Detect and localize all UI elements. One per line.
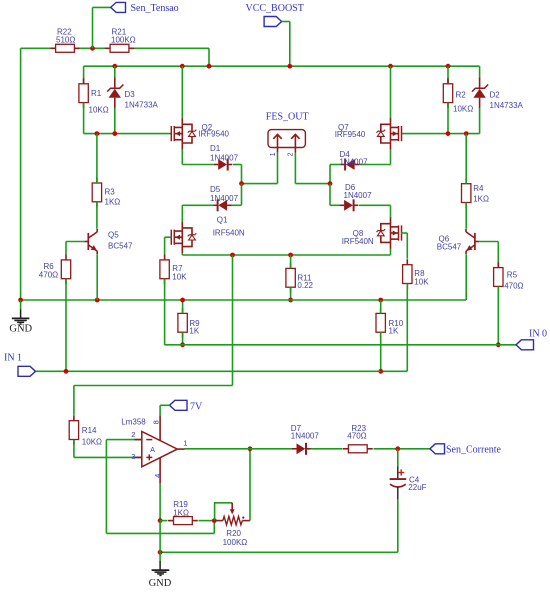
resistor R9 bbox=[178, 308, 200, 338]
svg-text:R5: R5 bbox=[507, 271, 518, 280]
wire bbox=[83, 66, 85, 84]
svg-text:1K: 1K bbox=[189, 327, 199, 336]
wire bbox=[182, 332, 184, 345]
svg-text:R4: R4 bbox=[473, 184, 484, 193]
node junction bbox=[446, 64, 451, 69]
transistor Q7 bbox=[335, 118, 402, 150]
svg-text:R14: R14 bbox=[82, 426, 97, 435]
svg-text:D2: D2 bbox=[490, 90, 501, 99]
wire bbox=[96, 202, 98, 229]
svg-text:470Ω: 470Ω bbox=[504, 281, 523, 290]
wire bbox=[465, 254, 467, 300]
wire bbox=[181, 205, 183, 222]
svg-text:2: 2 bbox=[131, 430, 135, 439]
svg-text:10KΩ: 10KΩ bbox=[89, 105, 109, 114]
wire bbox=[232, 184, 242, 206]
svg-text:1KΩ: 1KΩ bbox=[473, 195, 489, 204]
ground GND2 bbox=[149, 552, 172, 589]
svg-text:3: 3 bbox=[131, 452, 135, 461]
svg-text:10KΩ: 10KΩ bbox=[453, 104, 473, 113]
svg-text:IN 0: IN 0 bbox=[529, 328, 547, 339]
node junction bbox=[446, 131, 451, 136]
wire bbox=[282, 22, 290, 67]
svg-text:IRF540N: IRF540N bbox=[342, 237, 374, 246]
wire bbox=[66, 242, 84, 255]
ground GND1 bbox=[9, 300, 32, 335]
wire gate Q8 bbox=[401, 233, 407, 259]
svg-text:1N4007: 1N4007 bbox=[344, 191, 373, 200]
svg-text:FES_OUT: FES_OUT bbox=[266, 112, 309, 123]
wire bbox=[182, 204, 213, 206]
node junction bbox=[95, 131, 100, 136]
wire bbox=[330, 184, 340, 206]
svg-text:R20: R20 bbox=[226, 529, 241, 538]
svg-text:7V: 7V bbox=[190, 401, 203, 412]
wire bbox=[182, 164, 213, 166]
node junction bbox=[230, 253, 235, 258]
svg-text:R3: R3 bbox=[105, 188, 116, 197]
wire bbox=[84, 133, 172, 135]
wire bbox=[160, 405, 169, 415]
wire bbox=[249, 449, 251, 521]
wire bbox=[83, 103, 85, 134]
diode D1 bbox=[210, 144, 239, 170]
svg-text:GND: GND bbox=[9, 324, 32, 335]
svg-text:470Ω: 470Ω bbox=[39, 271, 58, 280]
wire bbox=[465, 203, 467, 229]
node junction bbox=[180, 298, 185, 303]
resistor R10 bbox=[376, 308, 404, 338]
svg-text:IRF9540: IRF9540 bbox=[198, 130, 229, 139]
svg-text:1N4007: 1N4007 bbox=[291, 431, 320, 440]
wire bbox=[181, 253, 183, 255]
node junction bbox=[95, 298, 100, 303]
resistor R5 bbox=[494, 262, 524, 292]
svg-text:Sen_Corrente: Sen_Corrente bbox=[446, 445, 502, 456]
wire bbox=[465, 134, 467, 184]
wire bbox=[359, 164, 391, 166]
node junction bbox=[248, 446, 253, 451]
net flag Sen_Corrente bbox=[430, 444, 502, 456]
node junction bbox=[180, 342, 185, 347]
wire bbox=[159, 484, 161, 521]
wire bbox=[397, 449, 399, 467]
node junction bbox=[288, 253, 293, 258]
wire bbox=[390, 149, 392, 164]
diode D5 bbox=[210, 185, 239, 212]
node junction bbox=[180, 64, 185, 69]
node junction bbox=[64, 369, 69, 374]
resistor R14 bbox=[69, 415, 102, 447]
wire pin2 feedback bbox=[106, 440, 214, 534]
wire bbox=[165, 279, 178, 345]
wire bbox=[295, 153, 330, 184]
wire bbox=[380, 300, 382, 314]
svg-text:Q5: Q5 bbox=[108, 231, 119, 240]
capacitor C4 bbox=[390, 467, 427, 500]
svg-text:470Ω: 470Ω bbox=[347, 431, 366, 440]
transistor Q5 bbox=[84, 229, 133, 254]
node junction bbox=[378, 369, 383, 374]
svg-text:R1: R1 bbox=[91, 89, 102, 98]
svg-text:R6: R6 bbox=[44, 262, 55, 271]
connector FES_OUT bbox=[266, 112, 309, 153]
wire bbox=[96, 134, 98, 183]
wire bbox=[290, 255, 292, 268]
wire bbox=[330, 165, 341, 184]
resistor R3 bbox=[92, 178, 120, 208]
resistor R11 bbox=[286, 263, 314, 293]
wire bbox=[159, 521, 161, 553]
wire bbox=[374, 448, 430, 450]
wire bbox=[233, 165, 242, 184]
wire bbox=[390, 249, 392, 255]
node junction bbox=[496, 342, 501, 347]
wire bbox=[182, 300, 184, 314]
resistor R19 bbox=[168, 500, 198, 525]
wire bbox=[74, 255, 233, 415]
svg-text:8: 8 bbox=[151, 420, 160, 424]
wire wiper loop bbox=[215, 503, 233, 521]
svg-text:D5: D5 bbox=[210, 185, 221, 194]
svg-text:1N4007: 1N4007 bbox=[210, 154, 239, 163]
wire bbox=[80, 47, 105, 49]
svg-text:VCC_BOOST: VCC_BOOST bbox=[246, 3, 304, 14]
wire bbox=[497, 286, 499, 344]
svg-text:BC547: BC547 bbox=[437, 243, 462, 252]
wire gate Q1 bbox=[165, 237, 172, 254]
diode D4 bbox=[340, 150, 369, 171]
wire source rail bbox=[182, 254, 390, 256]
diode D6 bbox=[340, 183, 372, 211]
wire bbox=[199, 520, 215, 522]
wire bbox=[479, 65, 481, 67]
pin number 1 bbox=[270, 152, 277, 156]
svg-text:1N4733A: 1N4733A bbox=[125, 100, 159, 109]
svg-text:1K: 1K bbox=[389, 327, 399, 336]
wire bbox=[359, 204, 391, 206]
node junction bbox=[464, 131, 469, 136]
wire bbox=[181, 66, 183, 118]
resistor R1 bbox=[79, 78, 109, 114]
svg-text:D3: D3 bbox=[125, 90, 136, 99]
net flag VCC_BOOST bbox=[246, 3, 304, 27]
wire bbox=[20, 48, 22, 300]
svg-text:0.22: 0.22 bbox=[297, 281, 313, 290]
wire bbox=[390, 66, 392, 118]
net flag 7V bbox=[170, 400, 204, 412]
svg-text:R2: R2 bbox=[456, 90, 467, 99]
svg-text:1N4007: 1N4007 bbox=[210, 194, 239, 203]
wire bbox=[65, 279, 67, 372]
wire VCC rail bbox=[84, 65, 480, 67]
svg-text:1: 1 bbox=[270, 152, 277, 156]
wire bbox=[242, 153, 278, 184]
svg-text:100KΩ: 100KΩ bbox=[223, 538, 248, 547]
svg-text:GND: GND bbox=[149, 578, 172, 589]
wire bbox=[390, 205, 392, 217]
zener diode D2 bbox=[472, 66, 524, 133]
wire bbox=[447, 103, 449, 134]
svg-text:1: 1 bbox=[183, 439, 187, 448]
net flag IN 0 bbox=[516, 328, 547, 349]
svg-text:510Ω: 510Ω bbox=[56, 35, 75, 44]
svg-text:2: 2 bbox=[288, 152, 295, 156]
node junction bbox=[378, 298, 383, 303]
pin number 2 bbox=[288, 152, 295, 156]
node junction bbox=[90, 46, 95, 51]
wire bbox=[160, 520, 167, 522]
wire bbox=[93, 7, 111, 48]
svg-text:1KΩ: 1KΩ bbox=[105, 198, 121, 207]
wire ground rail bbox=[21, 299, 467, 301]
wire bbox=[96, 254, 98, 300]
svg-text:IRF540N: IRF540N bbox=[213, 229, 245, 238]
node junction bbox=[239, 181, 244, 186]
node junction bbox=[18, 298, 23, 303]
node junction bbox=[328, 181, 333, 186]
potentiometer R20 bbox=[214, 503, 250, 547]
node junction bbox=[158, 518, 163, 523]
transistor Q2 bbox=[171, 118, 229, 150]
svg-text:D1: D1 bbox=[210, 144, 221, 153]
net flag Sen_Tensao bbox=[111, 2, 179, 14]
transistor Q1 bbox=[171, 215, 245, 253]
node junction bbox=[112, 131, 117, 136]
wire bbox=[447, 66, 449, 84]
wire bbox=[479, 242, 498, 268]
node junction bbox=[207, 64, 212, 69]
wire bbox=[160, 499, 398, 552]
svg-text:Q1: Q1 bbox=[217, 215, 228, 224]
node junction bbox=[287, 64, 292, 69]
svg-text:100KΩ: 100KΩ bbox=[111, 35, 136, 44]
svg-text:1KΩ: 1KΩ bbox=[173, 509, 189, 518]
svg-text:IRF9540: IRF9540 bbox=[335, 130, 366, 139]
resistor R22 bbox=[50, 27, 80, 52]
wire bbox=[21, 47, 51, 49]
wire bbox=[290, 287, 292, 300]
wire bbox=[380, 332, 382, 371]
resistor R2 bbox=[443, 78, 473, 113]
svg-text:1N4733A: 1N4733A bbox=[490, 101, 524, 110]
wire bbox=[181, 149, 183, 164]
resistor R4 bbox=[462, 178, 489, 208]
svg-text:A: A bbox=[150, 447, 155, 454]
wire output bbox=[185, 448, 293, 450]
resistor R23 bbox=[343, 424, 373, 453]
svg-text:IN 1: IN 1 bbox=[4, 352, 22, 363]
resistor R6 bbox=[39, 254, 71, 284]
svg-text:Lm358: Lm358 bbox=[121, 417, 146, 426]
wire bbox=[74, 440, 142, 458]
svg-text:22uF: 22uF bbox=[408, 483, 426, 492]
zener diode D3 bbox=[107, 66, 158, 133]
svg-text:R19: R19 bbox=[173, 500, 188, 509]
svg-text:10KΩ: 10KΩ bbox=[82, 438, 102, 447]
wire bbox=[381, 284, 408, 372]
svg-text:BC547: BC547 bbox=[108, 241, 133, 250]
node junction bbox=[288, 298, 293, 303]
transistor Q6 bbox=[437, 229, 479, 254]
wire IN0 line bbox=[177, 344, 516, 346]
diode D7 bbox=[291, 424, 320, 455]
node junction bbox=[158, 550, 163, 555]
resistor R8 bbox=[403, 259, 430, 289]
svg-text:4: 4 bbox=[153, 474, 162, 478]
svg-text:Sen_Tensao: Sen_Tensao bbox=[131, 3, 179, 14]
op-amp U1 LM358 bbox=[121, 415, 187, 483]
svg-text:10K: 10K bbox=[172, 273, 187, 282]
wire bbox=[134, 48, 209, 66]
wire bbox=[401, 133, 480, 135]
svg-text:10K: 10K bbox=[414, 278, 429, 287]
resistor R7 bbox=[160, 254, 187, 284]
node junction bbox=[112, 64, 117, 69]
node junction bbox=[212, 518, 217, 523]
wire bbox=[311, 448, 343, 450]
svg-text:1N4007: 1N4007 bbox=[340, 157, 369, 166]
node junction bbox=[395, 446, 400, 451]
node junction bbox=[388, 64, 393, 69]
resistor R21 bbox=[105, 27, 136, 52]
net flag IN 1 bbox=[4, 352, 36, 376]
wire IN1 line bbox=[36, 370, 381, 372]
transistor Q8 bbox=[342, 217, 402, 249]
